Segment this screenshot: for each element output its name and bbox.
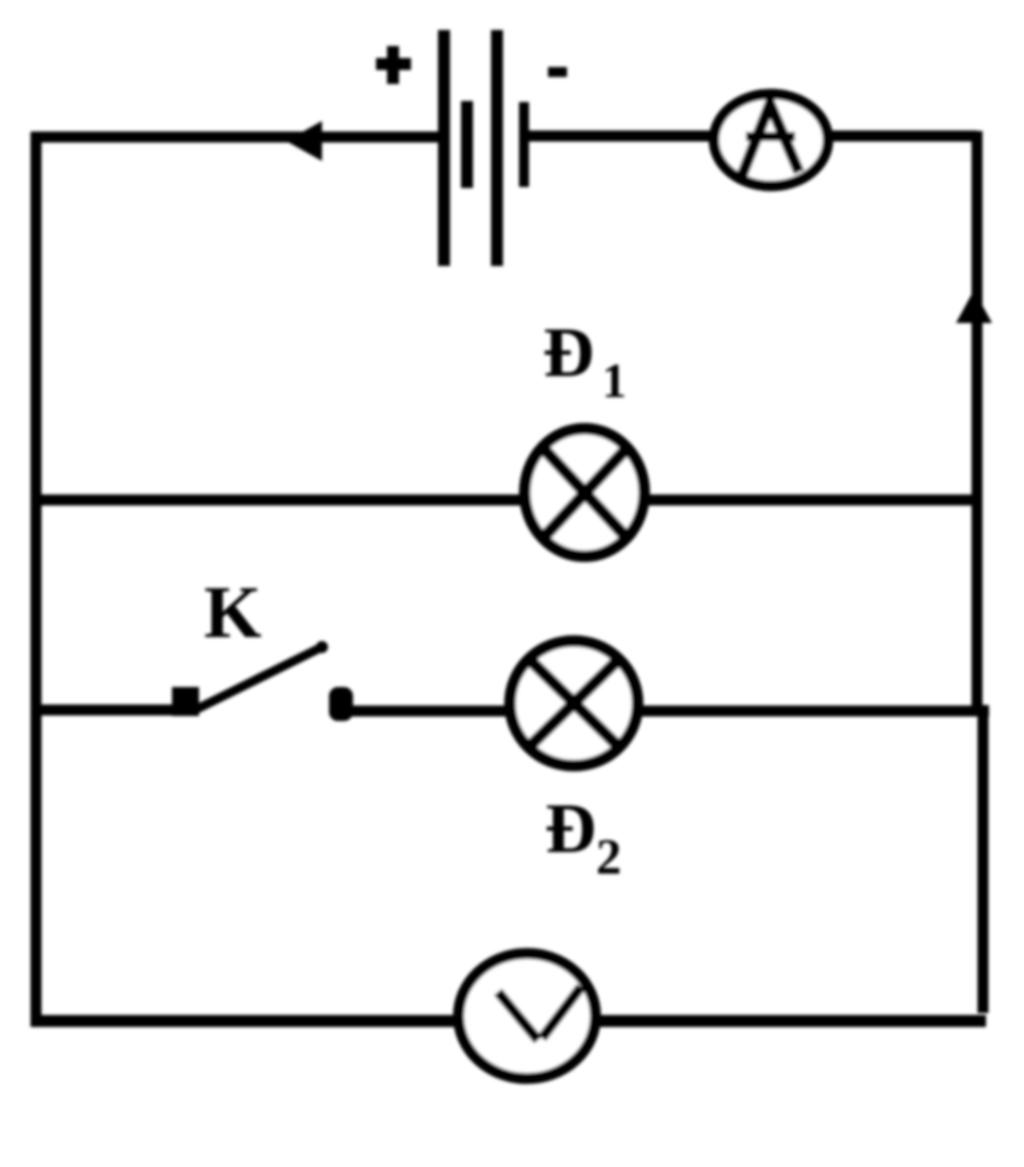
wire switch row right to lamp D2 and right vertical: [349, 706, 989, 717]
wire bottom: [31, 1015, 986, 1027]
wire top-left horizontal: [31, 132, 438, 143]
arrowhead on right vertical wire (pointing up): [956, 290, 992, 323]
svg-text:K: K: [204, 572, 262, 654]
plus label: [376, 46, 411, 84]
svg-text:2: 2: [596, 830, 622, 886]
switch K arm tip dot: [316, 641, 328, 653]
svg-text:1: 1: [602, 353, 627, 408]
arrowhead on top wire (current direction, pointing left): [286, 121, 322, 161]
wire left vertical: [31, 132, 42, 1027]
wire lamp D1 row: [36, 495, 977, 506]
svg-text:Đ: Đ: [543, 314, 594, 392]
battery short plate 1: [461, 101, 473, 188]
svg-text:Đ: Đ: [545, 790, 596, 868]
wire right vertical upper: [972, 131, 983, 710]
lamp D1: [525, 429, 645, 557]
ammeter A1: [714, 94, 828, 186]
minus label: [548, 67, 567, 77]
battery short plate 2: [519, 102, 529, 187]
lamp D2: [510, 641, 638, 766]
battery long plate 1: [438, 30, 450, 266]
wire right vertical lower: [978, 705, 989, 1013]
switch K left contact: [172, 687, 199, 716]
wire switch row left: [36, 705, 180, 716]
battery long plate 2: [491, 30, 503, 266]
switch K arm: [197, 646, 324, 709]
voltmeter V1: [459, 954, 596, 1079]
wire top-right horizontal: [529, 131, 977, 142]
switch K right contact: [329, 687, 353, 721]
